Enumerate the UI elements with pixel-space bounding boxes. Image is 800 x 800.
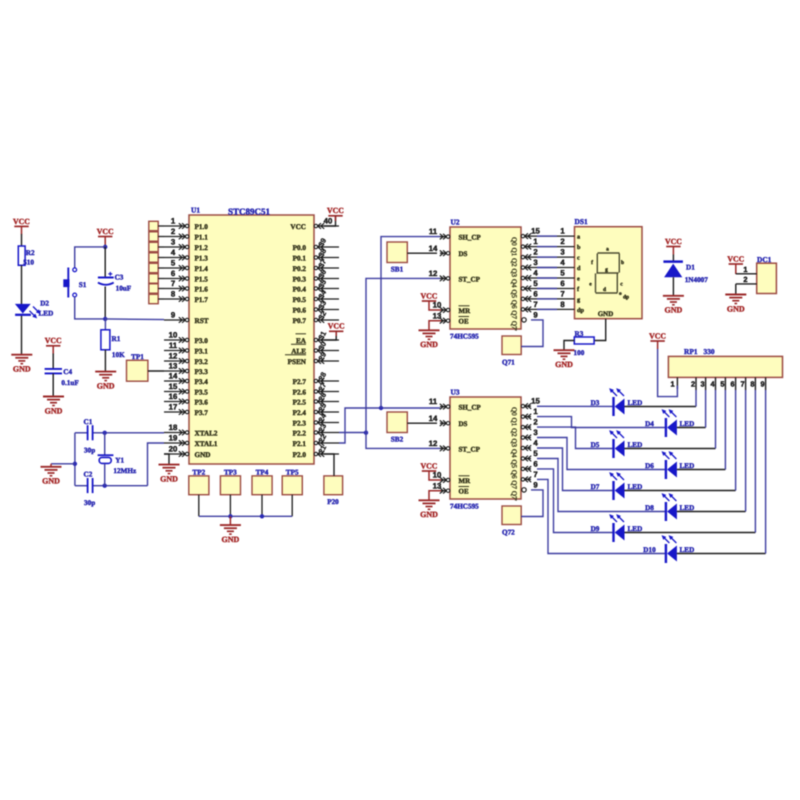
svg-text:5: 5 [560, 269, 565, 278]
wire U2 Q4 to DS1 e [531, 277, 575, 279]
svg-text:0.1uF: 0.1uF [61, 379, 79, 387]
wire node to R1 [104, 319, 106, 330]
svg-text:c: c [577, 255, 580, 262]
7-segment display DS1 body [575, 217, 643, 319]
pin 5 (Q5) of U3 [510, 449, 538, 468]
svg-text:Q0: Q0 [510, 237, 518, 246]
pin 9 of RP1 [761, 377, 766, 390]
svg-text:VCC: VCC [327, 206, 344, 215]
svg-text:TP4: TP4 [256, 469, 269, 477]
pin 6 (Q6) of U2 [510, 290, 538, 309]
svg-text:S1: S1 [79, 281, 87, 289]
svg-text:P0.7: P0.7 [293, 317, 307, 325]
wire VCC to D1 [672, 255, 674, 262]
svg-text:P0.1: P0.1 [293, 255, 307, 263]
svg-text:P1.6: P1.6 [195, 286, 209, 294]
push button S1 [63, 268, 86, 298]
pin 6 (Q6) of U3 [510, 460, 538, 479]
svg-text:9: 9 [533, 311, 538, 320]
svg-text:3: 3 [560, 248, 565, 257]
svg-text:Q4: Q4 [510, 279, 518, 288]
svg-text:R2: R2 [26, 249, 35, 257]
svg-text:P3.1: P3.1 [195, 348, 209, 356]
svg-text:16: 16 [169, 392, 178, 401]
wire DC1 pin2 to GND [735, 284, 737, 294]
test point TP3 [220, 469, 240, 495]
svg-text:VCC: VCC [421, 291, 438, 300]
ground symbol (under C4) [43, 397, 64, 416]
pin 15 (P3.5) of U1 [164, 382, 208, 397]
svg-text:g: g [605, 267, 608, 273]
svg-text:DS: DS [459, 420, 468, 428]
node pad at P1.5 [149, 274, 164, 283]
svg-text:Q7: Q7 [510, 310, 518, 319]
svg-text:PSEN: PSEN [288, 358, 307, 366]
pin 2 (P1.1) of U1 [164, 227, 208, 242]
LED D9 [591, 514, 643, 542]
pin 34 (P0.5) of U1 [293, 288, 339, 304]
svg-text:P1.2: P1.2 [195, 244, 209, 252]
svg-text:U3: U3 [451, 388, 460, 397]
svg-text:b: b [577, 244, 581, 251]
svg-text:GND: GND [97, 381, 115, 390]
svg-text:15: 15 [169, 382, 178, 391]
svg-text:P1.5: P1.5 [195, 276, 209, 284]
LED D5 [591, 430, 643, 458]
pin 4 (d) of DS1 [560, 258, 581, 272]
svg-text:C3: C3 [115, 274, 124, 282]
svg-text:GND: GND [222, 535, 240, 544]
pin 22 (P2.1) of U1 [293, 433, 339, 448]
svg-text:STC89C51: STC89C51 [228, 206, 271, 216]
pin 11 (SH_CP) of U2 [429, 227, 482, 241]
LED D3 [591, 388, 643, 416]
svg-text:4: 4 [560, 258, 565, 267]
pin 13 (P3.3) of U1 [164, 361, 208, 376]
svg-text:P3.3: P3.3 [195, 368, 209, 376]
svg-text:8: 8 [750, 380, 754, 389]
pin 18 (XTAL2) of U1 [164, 423, 218, 438]
svg-text:Q6: Q6 [510, 470, 518, 479]
svg-text:LED: LED [39, 310, 54, 318]
wire pin9 of U2 to Q71 [521, 320, 543, 347]
wire D3 to RP1 pin 2 [625, 406, 697, 408]
pin 12 (ST_CP) of U3 [429, 439, 481, 453]
wire D5 to RP1 pin 4 [625, 448, 716, 450]
svg-text:P2.0: P2.0 [293, 451, 307, 459]
capacitor C1 [84, 418, 96, 455]
node pad SB2 [387, 412, 407, 444]
svg-text:14: 14 [169, 371, 178, 380]
svg-text:10K: 10K [112, 351, 125, 359]
pin 2 of DC1 [736, 275, 757, 284]
svg-text:19: 19 [169, 433, 178, 442]
svg-text:5: 5 [533, 279, 538, 288]
pin 37 (P0.2) of U1 [293, 258, 339, 273]
wire D4 to RP1 pin 3 [677, 427, 706, 429]
svg-text:GND: GND [555, 360, 573, 369]
svg-text:15: 15 [531, 397, 540, 406]
wire U3 Q7 to D10 [537, 479, 665, 553]
svg-text:8: 8 [560, 300, 565, 309]
wire U2 Q3 to DS1 d [531, 267, 575, 269]
power symbol VCC (RP1) [649, 331, 666, 349]
svg-text:Q2: Q2 [510, 258, 518, 267]
ground symbol (U2 OE) [419, 330, 440, 349]
pin 16 (P3.6) of U1 [164, 392, 208, 407]
svg-text:6: 6 [533, 460, 538, 469]
svg-text:GND: GND [420, 340, 438, 349]
svg-text:2: 2 [743, 275, 747, 284]
wire P2.0 to P20 pad [324, 454, 334, 476]
junction XTAL1 node [103, 484, 107, 488]
svg-text:11: 11 [429, 397, 438, 406]
svg-text:GND: GND [727, 304, 745, 313]
svg-text:6: 6 [560, 279, 565, 288]
svg-text:VCC: VCC [649, 331, 666, 340]
pin 1 (Q1) of U2 [510, 237, 538, 256]
svg-text:DS1: DS1 [575, 217, 588, 226]
wire D8 to RP1 pin 7 [677, 511, 746, 513]
wire TP1 to P3.3 [148, 370, 164, 372]
svg-text:15: 15 [531, 227, 540, 236]
svg-text:C4: C4 [63, 368, 72, 376]
junction ST_CP branch [364, 431, 368, 435]
svg-text:SH_CP: SH_CP [459, 404, 482, 412]
svg-text:P0.4: P0.4 [293, 286, 307, 294]
wire U3 Q6 to D9 [537, 469, 613, 533]
ground symbol (under pin 20) [159, 465, 180, 484]
svg-text:1: 1 [670, 380, 674, 389]
svg-text:P1.3: P1.3 [195, 255, 209, 263]
test point TP1 [127, 353, 148, 381]
pin 1 (Q1) of U3 [510, 407, 538, 426]
svg-text:DC1: DC1 [757, 255, 772, 264]
pin 3 (P1.2) of U1 [164, 237, 208, 252]
svg-text:2: 2 [560, 237, 565, 246]
wire RP1 pin 2 drop [695, 390, 697, 407]
svg-text:3: 3 [533, 258, 538, 267]
wire C4 to GND [52, 374, 54, 397]
svg-text:4: 4 [533, 439, 538, 448]
test point TP4 [252, 469, 272, 495]
svg-text:VCC: VCC [727, 254, 744, 263]
svg-text:XTAL1: XTAL1 [195, 440, 218, 448]
svg-text:10: 10 [169, 330, 178, 339]
svg-text:Q1: Q1 [510, 418, 518, 427]
pin 5 (Q5) of U2 [510, 279, 538, 298]
svg-text:Q2: Q2 [510, 428, 518, 437]
wire U3 Q2 to D5 [537, 427, 613, 448]
wire RP1 pin 5 drop [724, 390, 726, 470]
pin 21 (P2.0) of U1 [293, 444, 339, 459]
wire U3 Q5 to D8 [537, 459, 665, 512]
svg-text:7: 7 [560, 290, 564, 299]
IC U1 STC89C51 microcontroller [189, 206, 314, 465]
pin 23 (P2.2) of U1 [293, 422, 339, 437]
svg-text:XTAL2: XTAL2 [195, 430, 218, 438]
svg-text:3: 3 [533, 428, 538, 437]
svg-text:GND: GND [195, 451, 211, 459]
pin 39 (P0.0) of U1 [293, 237, 339, 252]
svg-text:P3.0: P3.0 [195, 337, 209, 345]
svg-text:OE: OE [459, 488, 469, 496]
pin 5 (e) of DS1 [560, 269, 580, 283]
svg-text:D5: D5 [591, 441, 600, 449]
ground symbol (under DC1) [725, 295, 746, 314]
pin 32 (P0.7) of U1 [293, 310, 339, 325]
pin 28 (P2.7) of U1 [293, 371, 339, 386]
svg-text:4: 4 [533, 269, 538, 278]
svg-text:4: 4 [171, 248, 176, 257]
wire VCC to RP1 pin 1 [658, 349, 678, 397]
svg-text:12: 12 [429, 439, 438, 448]
svg-text:GND: GND [160, 474, 178, 483]
svg-text:P3.5: P3.5 [195, 389, 209, 397]
svg-text:Q1: Q1 [510, 248, 518, 257]
svg-text:10: 10 [433, 471, 442, 480]
power symbol VCC (DC1) [727, 254, 744, 274]
pin 7 (P1.6) of U1 [164, 279, 208, 294]
svg-text:U2: U2 [451, 218, 460, 227]
svg-text:2: 2 [533, 418, 538, 427]
node pad at P1.1 [149, 232, 164, 241]
pin 5 (P1.4) of U1 [164, 258, 208, 273]
wire U3 Q4 to D7 [537, 448, 613, 491]
pin 14 (P3.4) of U1 [164, 371, 208, 386]
svg-text:13: 13 [433, 311, 442, 320]
pin 4 of RP1 [710, 377, 715, 390]
pin 3 of RP1 [701, 377, 706, 390]
svg-text:40: 40 [324, 216, 333, 225]
svg-text:P3.6: P3.6 [195, 399, 209, 407]
svg-text:R1: R1 [112, 335, 121, 343]
pin 6 (P1.5) of U1 [164, 269, 208, 284]
svg-text:VCC: VCC [328, 322, 345, 331]
svg-text:510: 510 [23, 259, 34, 267]
svg-text:dp: dp [577, 307, 584, 314]
wire RP1 pin 9 drop [765, 390, 767, 554]
svg-text:6: 6 [533, 290, 538, 299]
pin 8 (P1.7) of U1 [164, 289, 208, 304]
svg-text:Q0: Q0 [510, 407, 518, 416]
svg-text:RST: RST [195, 317, 209, 325]
wire VCC to pin10 of U2 [429, 301, 441, 310]
pin 20 (GND) of U1 [164, 444, 210, 459]
capacitor C2 [84, 471, 96, 507]
svg-text:VCC: VCC [665, 237, 682, 246]
wire U2 Q5 to DS1 f [531, 288, 575, 290]
node pad at P1.7 [149, 294, 164, 303]
svg-text:P0.5: P0.5 [293, 296, 307, 304]
svg-text:P2.6: P2.6 [293, 389, 307, 397]
svg-text:7: 7 [171, 279, 175, 288]
svg-text:Q5: Q5 [510, 460, 518, 469]
pin 10 (MR) of U3 [433, 471, 471, 485]
svg-text:30p: 30p [84, 499, 95, 507]
pin 36 (P0.3) of U1 [293, 268, 339, 283]
LED D7 [591, 472, 643, 500]
pin 14 (DS) of U3 [429, 414, 468, 428]
svg-text:1: 1 [533, 237, 538, 246]
svg-text:P0.2: P0.2 [293, 265, 307, 273]
node pad Q72 [502, 506, 521, 537]
pin 38 (P0.1) of U1 [293, 247, 339, 262]
pin 13 (OE) of U2 [433, 311, 469, 325]
power symbol VCC (pin 40) [327, 206, 344, 216]
pin 6 of RP1 [731, 377, 736, 390]
svg-text:1: 1 [171, 216, 176, 225]
ground symbol (under R1) [95, 372, 116, 391]
wire C3 to RST node [104, 287, 106, 319]
wire R3 to GND [564, 341, 574, 351]
svg-text:1: 1 [533, 407, 538, 416]
svg-text:a: a [606, 247, 609, 253]
wire VCC to C4 [52, 354, 54, 369]
node pad at P1.2 [149, 242, 164, 251]
ground symbol (crystal) [41, 464, 62, 486]
svg-text:D9: D9 [591, 525, 600, 533]
pin 7 (g) of DS1 [560, 290, 581, 304]
svg-text:dp: dp [623, 295, 629, 301]
svg-text:P1.0: P1.0 [195, 223, 209, 231]
wire pin9 of U3 to Q72 [521, 490, 543, 517]
wire U2 Q0 to DS1 a [531, 235, 575, 237]
node pad Q71 [502, 336, 521, 367]
wire D2 to GND [21, 316, 23, 355]
svg-text:GND: GND [420, 510, 438, 519]
svg-text:2: 2 [171, 227, 176, 236]
svg-text:P3.4: P3.4 [195, 378, 209, 386]
svg-text:D3: D3 [591, 399, 600, 407]
wire RP1 pin 6 drop [735, 390, 737, 491]
wire RP1 pin 8 drop [754, 390, 756, 533]
pin 1 of DC1 [736, 265, 757, 274]
svg-text:TP1: TP1 [131, 353, 144, 361]
connector DC1 [757, 255, 777, 294]
pin 3 (c) of DS1 [560, 248, 580, 262]
wire U2 Q2 to DS1 c [531, 256, 575, 258]
node pad at P1.4 [149, 263, 164, 272]
wire crystal bottom rail [75, 485, 148, 487]
wire SB2 to DS [407, 422, 437, 424]
pin 30 (ALE) of U1 [291, 340, 339, 355]
pin 2 (Q2) of U2 [510, 248, 538, 267]
svg-text:1: 1 [743, 265, 747, 274]
wire node to GND [51, 463, 75, 465]
pin 40 (VCC) of U1 [290, 216, 339, 231]
junction VCC/S1/C3 node [103, 245, 107, 249]
svg-text:P2.5: P2.5 [293, 399, 307, 407]
pin 1 of RP1 [670, 377, 677, 389]
svg-text:3: 3 [171, 237, 176, 246]
svg-text:P3.2: P3.2 [195, 358, 209, 366]
svg-text:Q7': Q7' [510, 321, 518, 331]
svg-text:Q6: Q6 [510, 300, 518, 309]
crystal Y1 12MHz [98, 455, 137, 475]
wire pin13 of U2 to GND [429, 321, 441, 330]
ground symbol (under D1) [663, 296, 684, 315]
svg-text:Q7: Q7 [510, 480, 518, 489]
svg-text:D2: D2 [40, 300, 49, 308]
svg-text:10uF: 10uF [116, 285, 132, 293]
pin 35 (P0.4) of U1 [293, 278, 339, 293]
LED D2 [15, 300, 53, 319]
junction bus TP4 [260, 514, 264, 518]
IC U3 74HC595 shift register [450, 388, 521, 511]
pin 3 (Q3) of U2 [510, 258, 538, 277]
svg-text:Q7': Q7' [510, 491, 518, 501]
junction RST node [103, 317, 107, 321]
IC U2 74HC595 shift register [450, 218, 521, 341]
node pad at P1.6 [149, 284, 164, 293]
wire TP5 to bus [291, 495, 293, 517]
svg-text:MR: MR [459, 477, 472, 485]
pin 12 (P3.2) of U1 [164, 351, 208, 366]
svg-text:TP2: TP2 [192, 469, 205, 477]
svg-text:RP1: RP1 [684, 347, 698, 356]
power symbol VCC (reset branch) [97, 227, 114, 245]
pin 25 (P2.4) of U1 [293, 402, 339, 417]
svg-text:20: 20 [169, 444, 178, 453]
pin 33 (P0.6) of U1 [293, 299, 339, 314]
svg-text:C1: C1 [84, 418, 93, 426]
power symbol VCC (U3 MR) [421, 461, 438, 471]
pin 1 (a) of DS1 [560, 227, 580, 241]
svg-text:Q4: Q4 [510, 449, 518, 458]
pin 2 of RP1 [691, 377, 696, 390]
pin 31 (EA) of U1 [296, 330, 340, 345]
svg-text:d: d [603, 287, 606, 293]
svg-text:D7: D7 [591, 483, 600, 491]
svg-text:Q3: Q3 [510, 439, 518, 448]
svg-text:12MHz: 12MHz [113, 467, 137, 475]
pin 11 (SH_CP) of U3 [429, 397, 482, 411]
svg-text:7: 7 [533, 300, 537, 309]
pin 24 (P2.3) of U1 [293, 411, 339, 427]
pin 15 (Q0) of U2 [510, 227, 540, 246]
node seven-segment glyph in DS1 [589, 247, 629, 301]
svg-text:12: 12 [169, 351, 178, 360]
pin 2 (Q2) of U3 [510, 418, 538, 437]
wire U2 Q7 to DS1 dp [531, 308, 575, 310]
svg-text:GND: GND [42, 477, 60, 486]
wire SH_CP net from P2.1 [339, 408, 440, 443]
wire node to S1 top [75, 247, 106, 268]
power symbol VCC (U2 MR) [421, 291, 438, 301]
wire ST_CP riser to U2 [366, 278, 440, 432]
wire RP1 pin 3 drop [705, 390, 707, 428]
wire TP3 to bus [229, 495, 231, 517]
svg-text:P2.3: P2.3 [293, 420, 307, 428]
svg-text:11: 11 [169, 341, 178, 350]
svg-text:P3.7: P3.7 [195, 409, 209, 417]
wire U2 Q1 to DS1 b [531, 246, 575, 248]
svg-text:Q71: Q71 [502, 359, 515, 367]
svg-text:P0.0: P0.0 [293, 244, 307, 252]
wire pin13 of U3 to GND [429, 491, 441, 500]
svg-text:P2.7: P2.7 [293, 378, 307, 386]
svg-text:14: 14 [429, 414, 438, 423]
svg-text:VCC: VCC [97, 227, 114, 236]
wire RP1 pin 4 drop [715, 390, 717, 449]
svg-text:1N4007: 1N4007 [685, 276, 709, 284]
svg-text:U1: U1 [191, 206, 200, 215]
wire U3 Q3 to D6 [537, 438, 665, 470]
pin 7 (Q7) of U3 [510, 470, 538, 489]
pin 8 (dp) of DS1 [560, 300, 584, 314]
wire RST net [105, 318, 164, 321]
